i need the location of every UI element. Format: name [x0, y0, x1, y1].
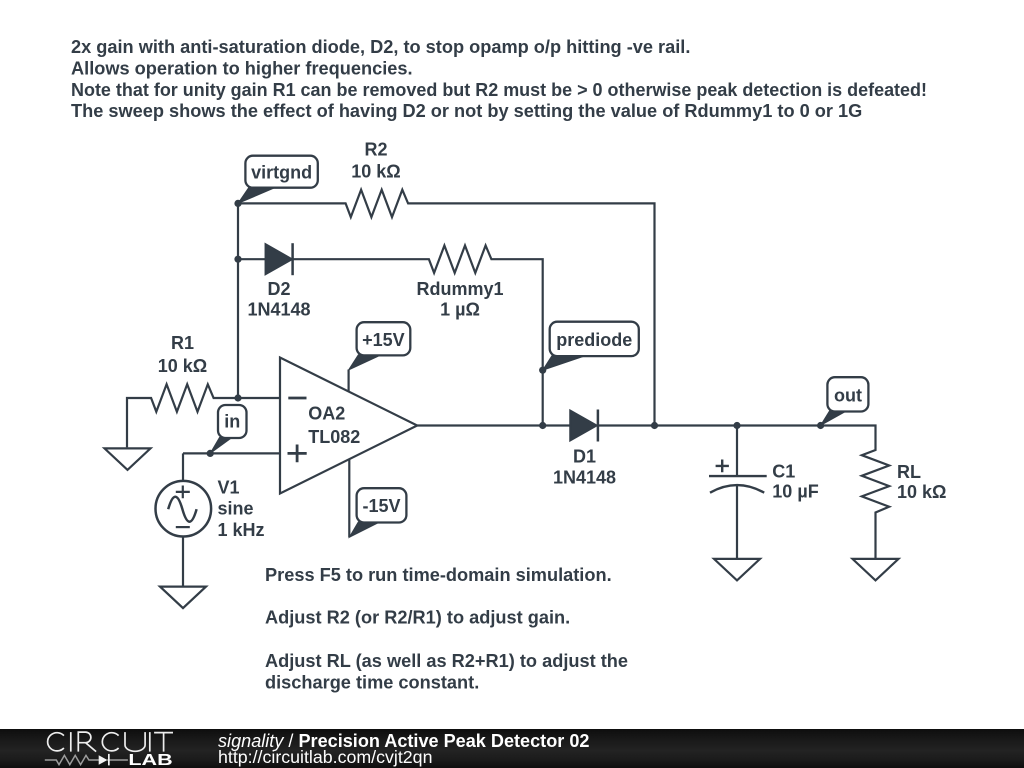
svg-text:prediode: prediode	[556, 330, 632, 350]
svg-text:LAB: LAB	[128, 752, 172, 768]
svg-text:OA2: OA2	[308, 404, 345, 424]
svg-text:+15V: +15V	[362, 330, 405, 350]
svg-text:1N4148: 1N4148	[247, 300, 310, 320]
svg-text:C1: C1	[772, 462, 795, 482]
svg-text:RL: RL	[897, 462, 921, 482]
svg-text:10 kΩ: 10 kΩ	[351, 161, 400, 181]
svg-text:R1: R1	[171, 333, 194, 353]
svg-text:Adjust RL (as well as R2+R1) t: Adjust RL (as well as R2+R1) to adjust t…	[265, 651, 628, 671]
svg-text:10 µF: 10 µF	[772, 482, 818, 502]
svg-text:1 kHz: 1 kHz	[218, 520, 265, 540]
svg-text:Allows operation to higher fre: Allows operation to higher frequencies.	[71, 59, 413, 79]
svg-text:Note that for unity gain R1 ca: Note that for unity gain R1 can be remov…	[71, 80, 927, 100]
svg-text:Press F5 to run time-domain si: Press F5 to run time-domain simulation.	[265, 565, 612, 585]
svg-text:out: out	[834, 385, 862, 405]
svg-text:10 kΩ: 10 kΩ	[897, 482, 946, 502]
svg-text:D2: D2	[267, 279, 290, 299]
svg-text:TL082: TL082	[308, 427, 360, 447]
svg-text:10 kΩ: 10 kΩ	[158, 356, 207, 376]
svg-text:The sweep shows the effect of: The sweep shows the effect of having D2 …	[71, 101, 862, 121]
svg-text:in: in	[224, 412, 240, 432]
svg-text:Rdummy1: Rdummy1	[416, 279, 503, 299]
svg-text:R2: R2	[364, 139, 387, 159]
svg-text:virtgnd: virtgnd	[251, 162, 312, 182]
svg-text:discharge time constant.: discharge time constant.	[265, 673, 479, 693]
svg-text:sine: sine	[218, 498, 254, 518]
svg-text:V1: V1	[218, 477, 240, 497]
svg-text:Adjust R2 (or R2/R1) to adjust: Adjust R2 (or R2/R1) to adjust gain.	[265, 607, 570, 627]
svg-text:2x gain with anti-saturation d: 2x gain with anti-saturation diode, D2, …	[71, 37, 690, 57]
svg-text:D1: D1	[573, 446, 596, 466]
svg-text:-15V: -15V	[362, 496, 400, 516]
svg-text:1N4148: 1N4148	[553, 468, 616, 488]
svg-text:1 µΩ: 1 µΩ	[440, 300, 480, 320]
